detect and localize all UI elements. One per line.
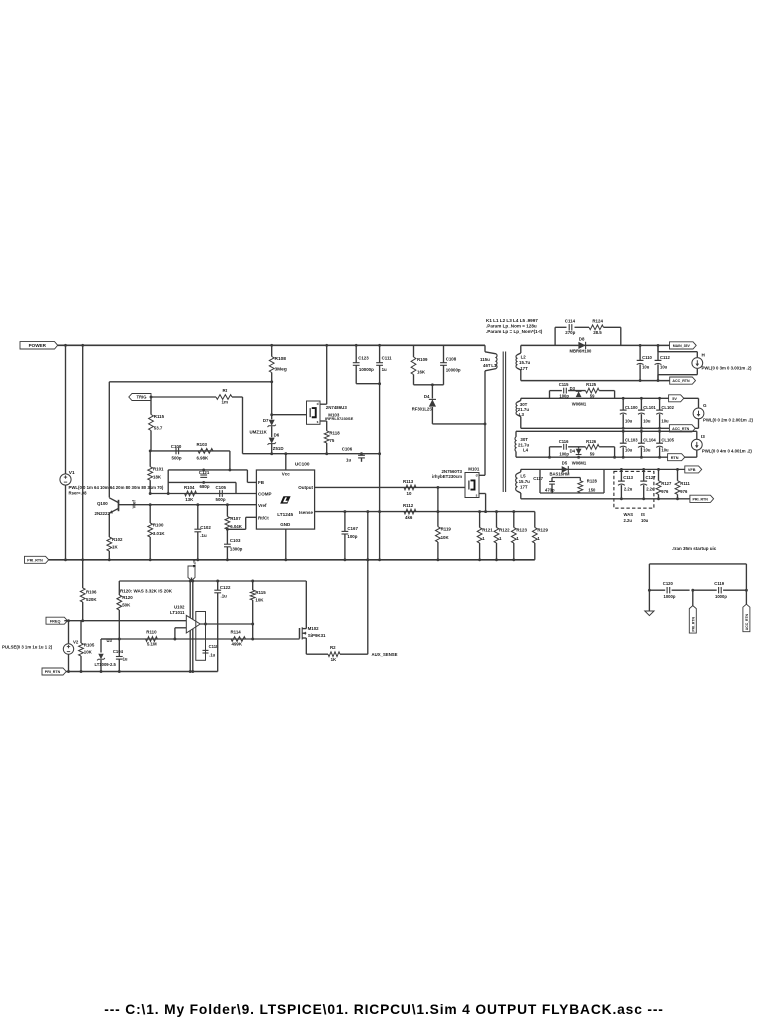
- svg-text:50K: 50K: [122, 603, 131, 608]
- svg-text:R100: R100: [153, 523, 164, 528]
- wire M103 drain to POWER: [320, 403, 327, 405]
- svg-text:C122: C122: [220, 585, 231, 590]
- voltage source V2 PULSE: [68, 621, 70, 644]
- svg-text:L4: L4: [523, 448, 529, 453]
- capacitors CL103 CL104 CL105: [622, 431, 624, 443]
- transistor M101: [465, 473, 479, 498]
- svg-text:AUX_SENSE: AUX_SENSE: [372, 652, 398, 657]
- net flag PRI_RTN sec4: [690, 495, 714, 502]
- inductor L1 primary: [484, 345, 486, 352]
- svg-text:C116: C116: [559, 439, 569, 444]
- net flag VFB vertical: [188, 566, 195, 581]
- resistor R106 520K: [82, 560, 84, 588]
- svg-text:R120: R120: [122, 595, 133, 600]
- svg-text:5V: 5V: [672, 397, 677, 401]
- svg-text:1K: 1K: [112, 545, 118, 550]
- snubber loop C114 R124: [554, 327, 556, 345]
- svg-text:Rt: Rt: [223, 388, 228, 393]
- wire TRIG node: [151, 396, 216, 398]
- svg-text:Z51D: Z51D: [273, 446, 284, 451]
- svg-text:5.1M: 5.1M: [147, 642, 157, 647]
- wire output net: [200, 623, 253, 625]
- wire collector drop: [108, 382, 110, 498]
- inductor L5: [520, 469, 522, 471]
- capacitor C120 1000p: [649, 589, 665, 591]
- resistor R115b 10K: [252, 581, 254, 590]
- wire sec3 bottom: [516, 456, 697, 458]
- svg-text:Vref: Vref: [258, 503, 267, 508]
- svg-text:17T: 17T: [520, 366, 528, 371]
- resistor R127 976: [658, 469, 660, 480]
- svg-text:470p: 470p: [545, 487, 555, 492]
- capacitor C113 2.2u: [620, 469, 622, 481]
- svg-text:C112: C112: [660, 355, 670, 360]
- svg-text:46T: 46T: [483, 363, 491, 368]
- wire COMP net: [150, 493, 256, 495]
- svg-text:VFB: VFB: [192, 560, 196, 568]
- svg-text:28.5: 28.5: [593, 330, 602, 335]
- wire sec1 top: [521, 344, 670, 346]
- svg-text:CL102: CL102: [661, 405, 674, 410]
- svg-text:16K: 16K: [417, 369, 426, 374]
- wire POWER top rail: [58, 344, 485, 346]
- voltage source V1: [60, 474, 71, 485]
- net flag ACC_RTN vertical: [743, 604, 750, 632]
- svg-text:d: d: [476, 474, 478, 478]
- wire FB-divider horizontal: [150, 450, 230, 452]
- svg-text:10: 10: [407, 491, 412, 496]
- svg-text:10u: 10u: [625, 419, 633, 424]
- svg-text:GND: GND: [280, 522, 291, 527]
- wire Rt to Vcc rail corner: [232, 396, 243, 398]
- wire startup top: [649, 563, 746, 565]
- svg-text:C102: C102: [200, 525, 211, 530]
- wire M101 drain lead: [479, 474, 485, 476]
- wire C123-C111 bottoms: [356, 383, 379, 385]
- wire V1 rail vertical: [65, 345, 67, 474]
- wire second primary rail vertical: [82, 345, 84, 560]
- wire snubber bottoms: [414, 384, 444, 386]
- svg-text:100p: 100p: [559, 393, 569, 398]
- current source H load: [657, 345, 659, 351]
- snubber loop C116 R126 below: [549, 447, 551, 457]
- svg-text:R109: R109: [417, 357, 428, 362]
- svg-text:R129: R129: [537, 527, 548, 532]
- diode D4b W06M1: [578, 447, 580, 449]
- svg-text:C104: C104: [113, 649, 124, 654]
- net flag MAIN_35V: [670, 342, 697, 349]
- svg-text:C120: C120: [663, 581, 674, 586]
- wire primary ground rail: [49, 559, 535, 561]
- capacitor C102 .1u: [197, 505, 199, 530]
- resistor R110 5.1M: [146, 637, 158, 642]
- svg-text:R122: R122: [499, 527, 510, 532]
- svg-text:D7: D7: [263, 418, 269, 423]
- transformer core: [502, 352, 504, 493]
- net flag 5V: [669, 395, 684, 402]
- svg-text:R128: R128: [587, 478, 598, 483]
- svg-text:100p: 100p: [559, 451, 569, 456]
- wire LT1011 supply rails: [189, 581, 191, 672]
- svg-text:R108: R108: [275, 356, 287, 362]
- svg-text:M101: M101: [468, 466, 480, 471]
- svg-text:.Param Lp = Lp_Nom*(1-t): .Param Lp = Lp_Nom*(1-t): [486, 329, 543, 334]
- zener D6 Z51D: [271, 426, 273, 437]
- capacitor C127 2.2u: [643, 469, 645, 481]
- wire R2 to AUX_SENSE: [340, 653, 368, 655]
- resistor R113 10: [404, 485, 416, 490]
- wire L1 to M101 drain: [484, 371, 486, 476]
- svg-text:C106: C106: [342, 446, 353, 451]
- svg-text:LT1011: LT1011: [170, 610, 185, 615]
- net flag FREQ: [46, 617, 68, 624]
- svg-text:Vref: Vref: [132, 500, 137, 509]
- svg-text:53.7: 53.7: [154, 426, 163, 431]
- resistor R122 1: [496, 512, 498, 528]
- svg-text:R124: R124: [592, 319, 603, 324]
- node junction dots on POWER rail: [64, 344, 67, 347]
- svg-text:500p: 500p: [172, 455, 182, 460]
- capacitor C111 1u: [379, 345, 381, 362]
- svg-text:L5: L5: [520, 474, 526, 479]
- wire VFB rail: [119, 580, 306, 582]
- svg-text:2N7486U3: 2N7486U3: [326, 405, 348, 410]
- svg-text:C117: C117: [533, 476, 543, 481]
- svg-text:100p: 100p: [347, 534, 357, 539]
- wire GND pin: [285, 529, 287, 560]
- net flag PRI_RTN left: [25, 556, 49, 563]
- resistor R124 28.5: [589, 325, 604, 330]
- wire sec4 top VFB: [521, 468, 685, 470]
- wire M101 source lead: [479, 493, 486, 495]
- wire Vcc pin: [285, 454, 287, 470]
- svg-text:R126: R126: [586, 439, 597, 444]
- wire R103 to FB wire: [229, 451, 231, 470]
- svg-text:PULSE(0 3 1m 1u 1u 1 2): PULSE(0 3 1m 1u 1u 1 2): [2, 645, 53, 650]
- capacitor C110 10u: [639, 345, 641, 360]
- resistor Rt 1m: [216, 395, 232, 400]
- wire balance loop rect: [196, 612, 206, 661]
- svg-text:10u: 10u: [642, 364, 650, 369]
- svg-text:C108: C108: [446, 356, 457, 361]
- capacitor C112 10u: [657, 345, 659, 360]
- wire AUX sense vertical: [367, 512, 369, 655]
- wire sec1 bottom ACC_RTN: [521, 380, 670, 382]
- svg-text:R120: WAS 3.32K IS 20K: R120: WAS 3.32K IS 20K: [120, 588, 173, 593]
- wire RtCt pin: [227, 528, 245, 530]
- svg-text:PWL(0 0 4m 0 4.001m .2): PWL(0 0 4m 0 4.001m .2): [702, 449, 752, 454]
- svg-text:d: d: [317, 402, 319, 406]
- svg-text:VFB: VFB: [688, 468, 696, 472]
- capacitor C104 1u: [101, 638, 119, 640]
- op-amp U102 LT1011: [186, 615, 200, 633]
- LT logo: [280, 496, 290, 503]
- svg-text:C119: C119: [714, 581, 724, 586]
- wire reference net: [101, 638, 300, 640]
- svg-text:POWER: POWER: [29, 343, 47, 348]
- resistor R102 1K: [107, 537, 112, 551]
- svg-text:Rt/Ct: Rt/Ct: [258, 516, 269, 521]
- svg-text:CL105: CL105: [661, 438, 674, 443]
- wire bottom ground rail: [63, 671, 218, 673]
- resistor R105 10K: [80, 621, 82, 643]
- resistor R103: [198, 449, 213, 454]
- svg-text:10u: 10u: [660, 364, 668, 369]
- svg-text:.1u: .1u: [221, 593, 228, 598]
- resistor R2 1K: [328, 652, 340, 657]
- svg-text:W06M1: W06M1: [572, 460, 587, 465]
- svg-text:499K: 499K: [232, 642, 243, 647]
- svg-text:L1: L1: [491, 363, 497, 368]
- svg-text:G: G: [703, 403, 707, 408]
- svg-text:ACC_RTN: ACC_RTN: [672, 379, 690, 383]
- wire M101 gate: [315, 486, 465, 488]
- svg-text:R125: R125: [586, 382, 597, 387]
- svg-text:R115: R115: [154, 414, 165, 419]
- op-amp U IC UC100 LT1245 box: [256, 470, 314, 529]
- svg-text:75: 75: [329, 438, 334, 443]
- wire M103 source: [320, 420, 327, 422]
- wire R112 cross link: [437, 487, 439, 511]
- net flag RTN: [668, 454, 685, 461]
- capacitor C105 500p: [219, 490, 221, 497]
- svg-text:10K: 10K: [84, 650, 93, 655]
- svg-text:.Param Lp_Nom = 128u: .Param Lp_Nom = 128u: [486, 324, 537, 329]
- svg-text:C100: C100: [171, 444, 182, 449]
- capacitor C103 1300p: [226, 529, 228, 544]
- svg-text:K1 L1 L2 L3 L4 L5 .9997: K1 L1 L2 L3 L4 L5 .9997: [486, 318, 538, 323]
- svg-text:2.2u: 2.2u: [624, 518, 633, 523]
- resistor R115 53.7: [150, 397, 152, 415]
- svg-text:18K: 18K: [153, 474, 162, 479]
- svg-text:R102: R102: [112, 537, 123, 542]
- wire FREQ net: [64, 620, 186, 622]
- svg-text:LT1245: LT1245: [277, 512, 293, 517]
- svg-text:MAIN_35V: MAIN_35V: [673, 344, 691, 348]
- svg-text:C103: C103: [230, 538, 241, 543]
- resistor R101 18K: [149, 451, 151, 467]
- svg-text:Isense: Isense: [299, 510, 314, 515]
- svg-text:D3: D3: [570, 386, 576, 391]
- svg-text:PWL(0 0 2m 0 2.001m .2): PWL(0 0 2m 0 2.001m .2): [703, 417, 753, 422]
- transistor M102 SiP9K31: [299, 628, 301, 639]
- svg-text:13K: 13K: [185, 497, 194, 502]
- svg-text:R114: R114: [231, 630, 242, 635]
- svg-text:R103: R103: [197, 442, 208, 447]
- svg-text:10u: 10u: [625, 448, 633, 453]
- svg-text:R107: R107: [230, 516, 241, 521]
- svg-text:15.7u: 15.7u: [519, 479, 531, 484]
- net flag PRI_RTN bottom: [42, 668, 66, 675]
- svg-text:.1u: .1u: [209, 652, 215, 657]
- svg-text:U102: U102: [174, 605, 185, 610]
- svg-text:.1u: .1u: [200, 533, 207, 538]
- shunt ref U3 LT1009-2.5: [100, 639, 102, 653]
- resistor R107 6.04K: [226, 505, 228, 517]
- svg-text:10u: 10u: [661, 419, 669, 424]
- svg-text:C110: C110: [642, 355, 652, 360]
- capacitor C114 270p: [568, 324, 570, 330]
- svg-text:C127: C127: [646, 475, 657, 480]
- svg-text:10u: 10u: [643, 419, 651, 424]
- svg-text:R110: R110: [146, 630, 157, 635]
- wire sec2 top: [521, 397, 699, 399]
- zener D7 UMZ11K: [271, 382, 273, 420]
- svg-text:C115: C115: [559, 382, 569, 387]
- svg-text:M102: M102: [308, 626, 320, 631]
- resistor R114 499K: [231, 637, 246, 642]
- svg-text:1000p: 1000p: [715, 594, 727, 599]
- wire FB net wire1: [168, 469, 247, 471]
- wire M102 drain: [305, 581, 307, 629]
- capacitor C118 .1u: [203, 649, 209, 651]
- svg-text:D8: D8: [579, 337, 585, 342]
- capacitor C123 10000p: [355, 345, 357, 362]
- net flag VFB out: [685, 466, 702, 473]
- svg-text:2.2u: 2.2u: [624, 486, 633, 491]
- net flag TRIG: [129, 394, 151, 401]
- svg-text:Q100: Q100: [97, 501, 108, 506]
- svg-text:MBR6H100: MBR6H100: [570, 349, 593, 354]
- svg-text:6.04K: 6.04K: [230, 524, 243, 529]
- diode D5 BAS16HM: [562, 466, 569, 473]
- svg-text:59: 59: [590, 451, 595, 456]
- svg-text:R112: R112: [403, 503, 414, 508]
- wire node381 horizontal: [109, 381, 271, 383]
- wire C111 vertical down: [379, 384, 381, 560]
- svg-text:irhybET230cm: irhybET230cm: [432, 474, 462, 479]
- svg-text:10K: 10K: [255, 598, 264, 603]
- capacitor C106 1u: [361, 454, 363, 456]
- inductor L2: [520, 345, 522, 353]
- svg-text:D6: D6: [274, 433, 280, 438]
- svg-text:C111: C111: [382, 355, 393, 360]
- snubber loop C115 R125: [549, 391, 551, 399]
- svg-text:WAS: WAS: [624, 512, 634, 517]
- svg-text:1u: 1u: [123, 657, 128, 662]
- inductor L4: [515, 431, 517, 437]
- svg-text:10K: 10K: [441, 535, 450, 540]
- svg-text:10u: 10u: [641, 518, 649, 523]
- svg-text:PRI_RTN: PRI_RTN: [27, 558, 43, 562]
- svg-text:.tran 35m startup uic: .tran 35m startup uic: [672, 546, 717, 551]
- svg-text:2.2u: 2.2u: [646, 486, 655, 491]
- svg-text:1m: 1m: [222, 400, 229, 405]
- svg-text:D4: D4: [424, 394, 430, 399]
- capacitor C121 680p: [200, 474, 207, 476]
- resistor R108: [271, 345, 273, 356]
- svg-text:976: 976: [661, 489, 669, 494]
- svg-text:RTN: RTN: [671, 456, 679, 460]
- wire sec4 bottom: [521, 498, 690, 500]
- svg-text:C114: C114: [565, 319, 576, 324]
- resistor R126 59: [586, 444, 600, 449]
- ground symbol: [645, 610, 654, 612]
- svg-text:PRI_RTN: PRI_RTN: [692, 497, 708, 501]
- svg-text:V2: V2: [73, 639, 79, 644]
- current source I3 load: [696, 431, 698, 439]
- svg-text:1K: 1K: [331, 657, 337, 662]
- svg-text:PWL(0 0 3m 0 3.001m .2): PWL(0 0 3m 0 3.001m .2): [702, 365, 752, 370]
- svg-text:R106: R106: [86, 589, 97, 594]
- svg-text:15.7u: 15.7u: [519, 360, 531, 365]
- svg-text:D4: D4: [570, 449, 576, 454]
- svg-text:R101: R101: [153, 466, 164, 471]
- capacitors CL100 CL101 CL102: [622, 398, 624, 410]
- svg-text:R123: R123: [516, 527, 527, 532]
- svg-text:CL104: CL104: [643, 438, 656, 443]
- current source G load: [698, 398, 700, 408]
- svg-text:RF301L2S: RF301L2S: [412, 407, 432, 412]
- capacitor C117 470p: [551, 478, 553, 482]
- svg-text:Rser=.08: Rser=.08: [69, 490, 88, 495]
- svg-text:--- C:\1. My Folder\9. LTSPIC: --- C:\1. My Folder\9. LTSPICE\01. RICPC…: [104, 1002, 664, 1017]
- svg-text:FB: FB: [258, 480, 265, 485]
- svg-text:V1: V1: [69, 470, 75, 476]
- resistor R119 10K: [437, 512, 439, 527]
- capacitor C167 100p: [344, 512, 346, 532]
- svg-text:W06M1: W06M1: [572, 402, 587, 407]
- svg-text:LT1009-2.5: LT1009-2.5: [95, 662, 117, 667]
- svg-text:30T: 30T: [520, 437, 528, 442]
- svg-text:115u: 115u: [480, 357, 490, 362]
- svg-text:C105: C105: [216, 485, 227, 490]
- wire sec3 top: [516, 430, 697, 432]
- net flag ACC_RTN 2: [669, 425, 695, 432]
- svg-text:R2: R2: [330, 645, 336, 650]
- capacitor C122 .1u: [217, 581, 219, 590]
- capacitor C116 100p: [563, 444, 565, 450]
- svg-text:C167: C167: [347, 526, 358, 531]
- wire comp wire2: [168, 481, 236, 483]
- svg-text:3.01K: 3.01K: [153, 531, 166, 536]
- net flag ACC_RTN 1: [670, 377, 696, 384]
- svg-text:SiP9K31: SiP9K31: [308, 633, 326, 638]
- wire Q100 emitter to R102: [108, 513, 110, 537]
- resistor R121 1: [479, 512, 481, 528]
- svg-text:10u: 10u: [643, 448, 651, 453]
- svg-text:17T: 17T: [520, 484, 528, 489]
- svg-text:150: 150: [588, 487, 596, 492]
- svg-text:1000p: 1000p: [664, 594, 676, 599]
- svg-text:10000p: 10000p: [359, 367, 374, 372]
- diode D8 MBR6H100: [578, 342, 585, 349]
- resistor R109 16K: [413, 345, 415, 357]
- svg-text:C123: C123: [358, 355, 369, 360]
- svg-text:IS: IS: [641, 512, 645, 517]
- svg-text:C113: C113: [623, 475, 633, 480]
- svg-text:Vcc: Vcc: [282, 471, 291, 476]
- svg-text:TRIG: TRIG: [136, 395, 146, 400]
- resistor R112 4k6: [404, 509, 416, 514]
- svg-text:6.98K: 6.98K: [197, 455, 210, 460]
- svg-text:R105: R105: [84, 642, 95, 647]
- svg-text:3Meg: 3Meg: [275, 367, 287, 373]
- svg-text:UC100: UC100: [295, 461, 310, 466]
- resistor R104 13K: [185, 491, 197, 496]
- wire Isense net: [315, 511, 535, 513]
- svg-text:BAS16HM: BAS16HM: [550, 472, 571, 477]
- svg-text:ACC_RTN: ACC_RTN: [672, 427, 690, 431]
- wire Vref net: [119, 504, 257, 506]
- svg-text:s: s: [317, 420, 319, 424]
- capacitor C115 100p: [563, 388, 565, 394]
- svg-text:10u: 10u: [661, 448, 669, 453]
- svg-text:C121: C121: [199, 470, 210, 475]
- svg-text:UMZ11K: UMZ11K: [249, 429, 267, 434]
- resistor R120 50K: [118, 581, 120, 595]
- wire D4 to drain node: [432, 423, 485, 425]
